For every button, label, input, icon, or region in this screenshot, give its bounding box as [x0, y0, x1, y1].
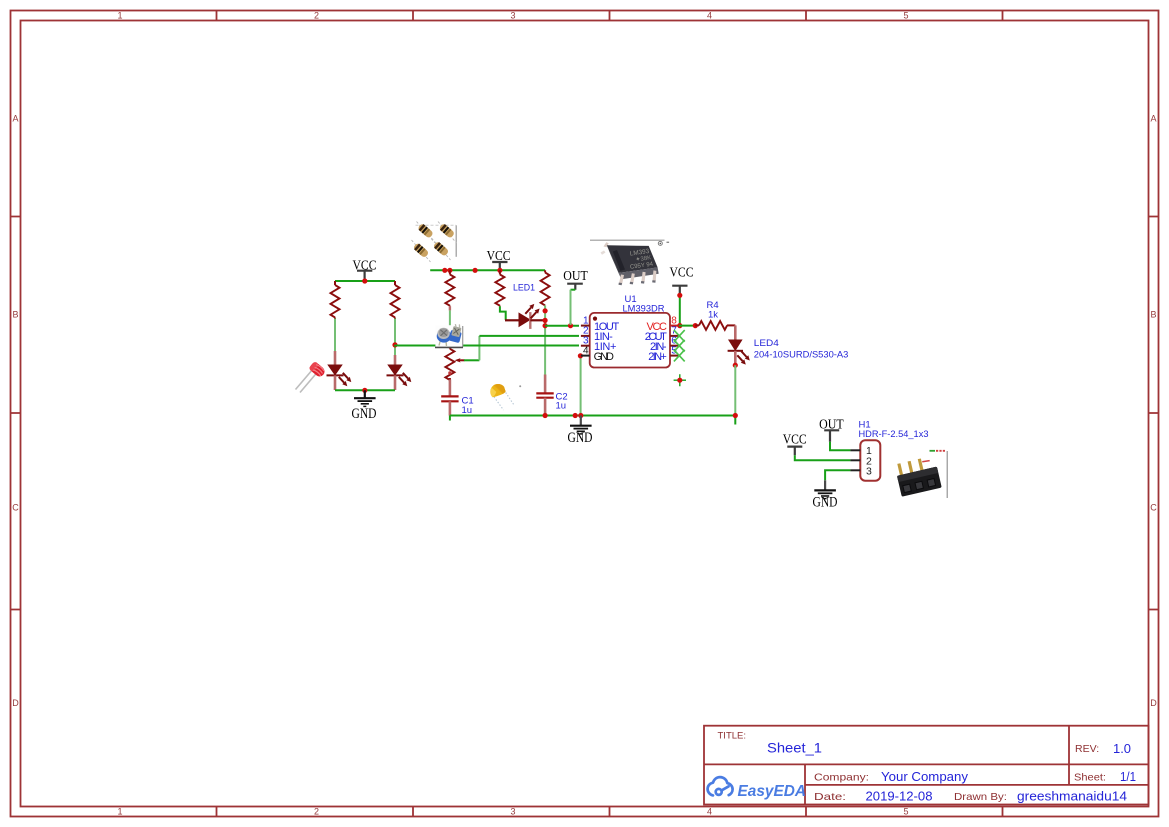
chip top face	[607, 245, 658, 273]
wire C1 stub below rail	[449, 416, 451, 421]
power flag VCC (comparator supply)	[670, 266, 694, 296]
no-connect X pin 6	[674, 340, 685, 352]
junction at R4 input	[693, 323, 698, 328]
svg-text:5: 5	[903, 807, 908, 817]
U1 pin 4 lead	[581, 355, 590, 357]
U1 pin numbers right	[671, 315, 677, 356]
svg-text:Drawn By:: Drawn By:	[954, 791, 1007, 803]
wire VCC to H1 pin 2	[795, 455, 851, 460]
ground GND (header)	[814, 480, 836, 498]
svg-text:4: 4	[707, 807, 712, 817]
junction node to comparator 1IN+	[392, 342, 397, 347]
svg-text:HDR-F-2.54_1x3: HDR-F-2.54_1x3	[859, 429, 929, 440]
no-connect X pin 5	[674, 350, 685, 362]
svg-text:GND: GND	[352, 406, 377, 422]
photo: axial resistors	[412, 222, 457, 263]
connector H1 body	[860, 440, 880, 481]
wire comparator 1IN+ (pin 3) from divider	[395, 344, 579, 347]
svg-text:3: 3	[510, 807, 515, 817]
svg-text:greeshmanaidu14: greeshmanaidu14	[1017, 790, 1127, 804]
wire LED4 to ground rail	[734, 365, 736, 415]
U1 pin 3 lead	[581, 345, 590, 347]
wire ground rail (bottom)	[450, 415, 735, 417]
svg-text:B: B	[12, 310, 18, 320]
svg-text:1/1: 1/1	[1120, 769, 1136, 784]
junctions at middle GND	[573, 413, 584, 418]
power flag VCC (left divider)	[353, 259, 377, 282]
U1 pin 1 lead	[581, 325, 590, 327]
chip pins	[619, 270, 656, 283]
svg-text:GND: GND	[813, 495, 838, 511]
svg-text:B: B	[1150, 310, 1156, 320]
wire (staircase to LED1 anode)	[500, 306, 506, 320]
svg-text:D: D	[12, 698, 19, 708]
svg-text:3: 3	[510, 11, 515, 21]
ground GND (left divider)	[354, 390, 376, 406]
wire comparator GND pin to rail	[580, 356, 582, 416]
photo: red LED	[296, 361, 327, 393]
wire	[449, 306, 451, 310]
svg-text:2: 2	[314, 11, 319, 21]
H1 pin 3 lead	[850, 469, 860, 471]
H1 pin 1 lead	[850, 449, 860, 451]
no-connect X pin 7	[674, 330, 685, 342]
svg-text:4: 4	[707, 11, 712, 21]
svg-text:Your Company: Your Company	[881, 770, 969, 784]
photo: SOIC-8 chip LM393	[590, 240, 669, 285]
svg-text:1u: 1u	[462, 405, 473, 416]
junction at left GND	[362, 388, 367, 393]
LED LED1	[505, 304, 545, 329]
junction C2 at ground rail	[543, 413, 548, 418]
wire bottom rail (left divider)	[335, 389, 395, 391]
junction LED4 branch at rail	[733, 413, 738, 418]
LED (left divider A)	[327, 351, 352, 390]
junctions on middle VCC rail	[442, 268, 502, 273]
capacitor C1	[441, 380, 458, 416]
svg-text:5: 5	[903, 11, 908, 21]
wire node column x=545	[544, 305, 546, 374]
potentiometer (trimmer) with wiper arrow	[445, 347, 464, 380]
svg-text:2019-12-08: 2019-12-08	[866, 790, 933, 804]
svg-text:Sheet:: Sheet:	[1074, 772, 1106, 784]
junction below LED4	[733, 363, 738, 368]
stray node marker	[674, 374, 686, 386]
photo: yellow ceramic capacitor	[490, 384, 521, 410]
wire comparator output node to pin 1	[545, 325, 579, 327]
svg-text:3: 3	[866, 466, 872, 478]
svg-text:OUT: OUT	[563, 269, 588, 284]
svg-text:204-10SURD/S530-A3: 204-10SURD/S530-A3	[754, 349, 849, 360]
junctions at node column	[543, 308, 548, 328]
junction below VCC flag	[677, 293, 682, 298]
svg-text:C: C	[1150, 503, 1157, 513]
svg-text:LED1: LED1	[513, 283, 535, 294]
H1 pin 2 lead	[850, 459, 860, 461]
svg-text:2: 2	[314, 807, 319, 817]
U1 pin names left	[594, 321, 620, 363]
LED LED4	[728, 325, 750, 365]
H1 pin numbers	[866, 445, 872, 478]
wire	[334, 319, 336, 352]
svg-text:EasyEDA: EasyEDA	[738, 783, 807, 800]
svg-text:Sheet_1: Sheet_1	[767, 740, 822, 756]
wire comparator 1IN- (pin 2)	[479, 335, 579, 337]
svg-text:C: C	[12, 503, 19, 513]
power flag VCC (middle rail)	[487, 249, 511, 270]
LED (left divider B)	[387, 355, 412, 390]
resistor (feedback/pull-up at node)	[541, 270, 550, 305]
U1 pin 5 lead	[670, 355, 679, 357]
svg-text:A: A	[12, 114, 18, 124]
wire VCC top rail (left divider)	[335, 280, 395, 282]
svg-text:Date:: Date:	[814, 791, 846, 803]
wire OUT flag to output node	[571, 289, 576, 291]
resistor left divider A	[331, 281, 340, 319]
wire pin 8 node to R4	[679, 325, 696, 327]
ground GND (middle)	[570, 416, 592, 434]
wire	[394, 319, 396, 356]
U1 pin names right	[645, 321, 667, 363]
wire VCC to pin 8	[679, 295, 681, 325]
svg-text:GND: GND	[594, 351, 614, 363]
net flag OUT (comparator output)	[563, 269, 588, 290]
svg-text:VCC: VCC	[670, 266, 694, 281]
svg-text:A: A	[1150, 114, 1156, 124]
svg-text:4: 4	[583, 345, 589, 356]
power flag VCC (header)	[783, 433, 807, 456]
svg-text:D: D	[1150, 698, 1157, 708]
chip side face	[619, 267, 659, 279]
svg-text:2IN+: 2IN+	[648, 351, 667, 363]
wire VCC middle rail	[430, 269, 545, 271]
op-amp U1 LM393DR body	[590, 313, 670, 368]
U1 pin 7 lead	[670, 335, 679, 337]
resistor R4	[695, 321, 735, 330]
svg-text:VCC: VCC	[783, 433, 807, 448]
U1 pin 8 lead	[670, 325, 679, 327]
svg-text:REV:: REV:	[1075, 743, 1099, 755]
resistor left divider B	[391, 281, 400, 319]
junction comparator GND pin	[578, 353, 583, 358]
resistor (sensor pull-up to trimmer)	[445, 270, 454, 306]
svg-text:TITLE:: TITLE:	[718, 731, 747, 742]
junction on left VCC rail	[362, 278, 367, 283]
junction at pin 8 node	[677, 323, 682, 328]
net flag OUT (header)	[819, 418, 844, 442]
wire trimmer wiper to 1IN-	[464, 359, 479, 361]
U1 pin 2 lead	[581, 335, 590, 337]
U1 pin 6 lead	[670, 345, 679, 347]
svg-text:1k: 1k	[708, 309, 718, 320]
svg-text:1: 1	[117, 11, 122, 21]
U1 polarity dot	[593, 317, 597, 321]
svg-text:1.0: 1.0	[1113, 741, 1131, 756]
junction OUT tap	[568, 323, 573, 328]
wire H1 pin 3 to GND	[825, 470, 850, 480]
wire OUT to H1 pin 1	[830, 442, 850, 451]
U1 pin numbers left	[583, 315, 589, 356]
capacitor C2	[536, 375, 553, 416]
resistor (LED1 series)	[495, 270, 504, 306]
svg-text:1: 1	[117, 807, 122, 817]
svg-text:Company:: Company:	[814, 772, 869, 784]
svg-text:1u: 1u	[556, 401, 567, 412]
photo: trimmer potentiometers	[435, 323, 464, 348]
svg-text:GND: GND	[568, 430, 593, 446]
photo: 1x3 female header	[894, 451, 947, 498]
svg-text:LED4: LED4	[754, 338, 779, 349]
